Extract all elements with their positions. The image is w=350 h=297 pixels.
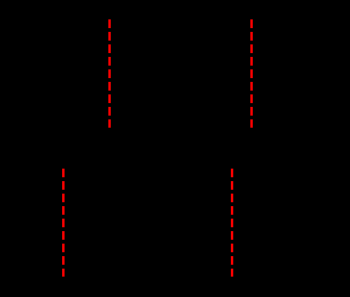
value label L: [143, 162, 150, 177]
cut plane 2 (mid-series, red dashed): [250, 19, 252, 127]
node: bottom network output terminal: [327, 186, 333, 262]
node: top network output terminal: [312, 37, 318, 113]
capacitor C (shunt, top network): [168, 40, 193, 110]
svg-text:L: L: [143, 162, 150, 177]
wire: top network, top rail middle: [123, 39, 237, 41]
inductor L (series, bottom network): [120, 182, 176, 189]
wire: top network, top rail left: [45, 39, 95, 41]
svg-text:C/2: C/2: [80, 215, 100, 230]
wire: bottom network, top rail left: [30, 188, 120, 190]
value label L/2 left: [100, 13, 118, 28]
cut plane 3 (mid-shunt, red dashed): [62, 169, 64, 277]
value label C/2 right: [249, 215, 269, 230]
capacitor C/2 (left shunt, mid-shunt cut): [51, 189, 76, 259]
wire: top network, bottom rail: [45, 109, 315, 111]
capacitor C/2 (right shunt, mid-shunt cut): [220, 189, 245, 259]
svg-text:C/2: C/2: [249, 215, 269, 230]
cut plane 1 (mid-series, red dashed): [108, 19, 110, 127]
wire: bottom network, bottom rail: [30, 258, 330, 260]
inductor L/2 (right series, mid-series cut): [237, 33, 265, 40]
value label C/2 left: [80, 215, 100, 230]
value label C: [198, 66, 207, 81]
inductor L/2 (left series, mid-series cut): [95, 33, 123, 40]
value label L/2 right: [242, 13, 260, 28]
wire: bottom network, top rail right: [176, 188, 330, 190]
node: top network input terminal: [42, 37, 48, 113]
cut plane 4 (mid-shunt, red dashed): [231, 169, 233, 277]
node: bottom network input terminal: [27, 186, 33, 262]
wire: top network, top rail right: [265, 39, 315, 41]
svg-text:C: C: [198, 66, 207, 81]
